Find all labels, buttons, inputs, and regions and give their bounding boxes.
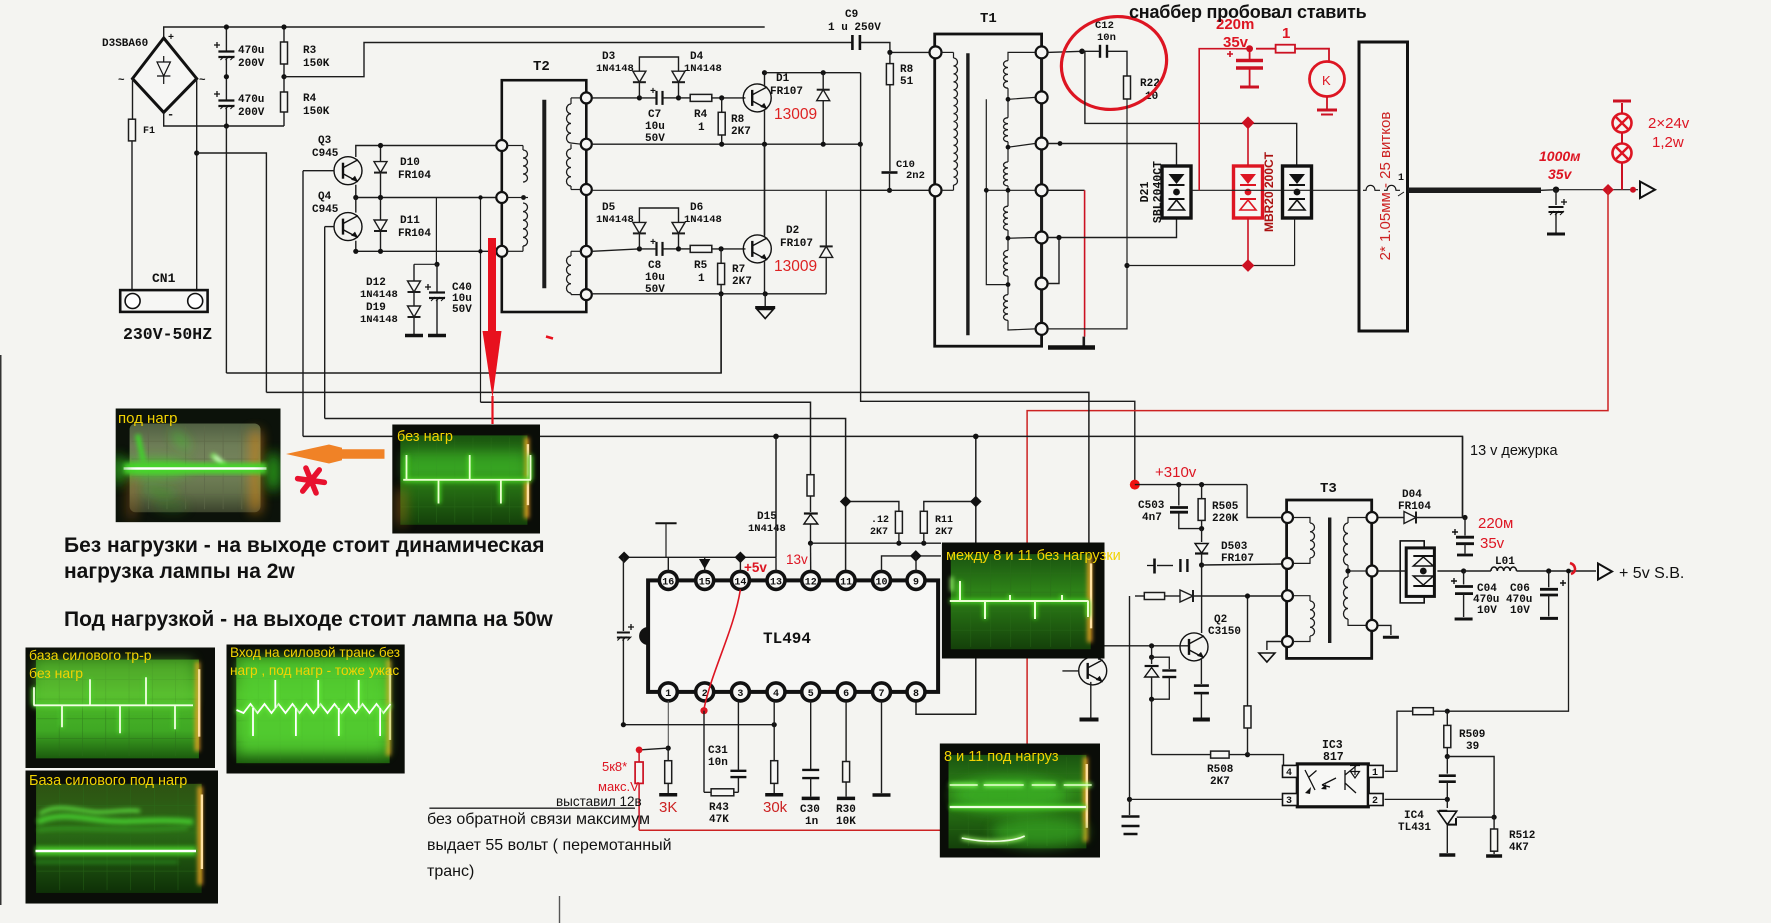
wire T1s4 rail out — [1047, 189, 1085, 191]
wire emitter rail to bus1 riser — [720, 294, 722, 373]
wire junction rail — [811, 542, 942, 544]
wire Q2 emitter — [1200, 658, 1202, 684]
transformer T2 body — [502, 80, 587, 312]
svg-text:R7: R7 — [732, 264, 745, 276]
wire TrA collector to Q2 base — [1099, 646, 1189, 660]
svg-text:220K: 220K — [1212, 513, 1239, 525]
wire R508 rail — [1152, 754, 1211, 756]
svg-text:без нагр: без нагр — [397, 429, 453, 445]
red snubber ellipse — [1051, 6, 1176, 121]
svg-text:1N4148: 1N4148 — [684, 214, 722, 226]
svg-text:транс): транс) — [427, 863, 474, 880]
T1 tap node — [1006, 282, 1011, 287]
node R509 bottom — [1445, 754, 1450, 759]
T1 right terminal 7 — [1036, 323, 1048, 335]
svg-text:D4: D4 — [690, 51, 704, 63]
red node +310v — [1130, 480, 1140, 490]
node C06 — [1546, 568, 1551, 573]
svg-text:10n: 10n — [708, 757, 728, 769]
svg-text:FR107: FR107 — [780, 238, 813, 250]
svg-text:50V: 50V — [452, 304, 472, 316]
svg-text:D19: D19 — [366, 302, 386, 314]
svg-text:1N4148: 1N4148 — [360, 314, 398, 326]
transistor D2 FR107 13009 — [743, 235, 771, 263]
T1 secondary wiring — [1008, 52, 1035, 60]
resistor R3 150K — [283, 27, 285, 42]
svg-text:10u: 10u — [645, 121, 665, 133]
wire TrA emitter ground — [1090, 682, 1092, 718]
wire D1 collector — [764, 73, 766, 86]
svg-text:Q2: Q2 — [1214, 614, 1227, 626]
node bridge-right tap — [194, 150, 199, 155]
svg-text:C12: C12 — [1095, 20, 1114, 32]
svg-text:макс.V: макс.V — [598, 779, 639, 794]
T2 left terminal 2 — [496, 192, 507, 203]
oscilloscope photo 5 baza silovogo pod nagr — [26, 771, 219, 904]
svg-text:FR104: FR104 — [398, 228, 431, 240]
node R505 bottom — [1199, 526, 1204, 531]
pin 6 TL494 — [837, 683, 855, 701]
node pin3 rail — [1127, 797, 1132, 802]
red node diamond out — [1602, 184, 1614, 196]
T3 left terminal 3 — [1282, 590, 1293, 601]
node low rail R22 — [1124, 263, 1129, 268]
svg-text:13v: 13v — [786, 552, 808, 567]
wire feed riser — [1129, 596, 1131, 799]
resistor R22 10 — [1124, 76, 1131, 99]
node C12 tap — [1079, 49, 1085, 55]
svg-text:K: K — [1322, 73, 1331, 88]
wire Q2 collector — [1201, 565, 1203, 633]
red node small — [1630, 187, 1636, 193]
capacitor C31 10n — [737, 777, 739, 792]
node resmid — [281, 74, 286, 79]
node R5-R7 — [719, 246, 724, 251]
svg-text:база силового тр-р: база силового тр-р — [29, 647, 152, 663]
wire tap rail2-to-C40 — [435, 198, 437, 265]
resistor R5 1 — [679, 248, 691, 250]
svg-text:C7: C7 — [648, 109, 661, 121]
T1 secondary coil 3 — [1004, 162, 1009, 186]
ground under D19 — [405, 334, 423, 338]
diode D6 1N4148 — [678, 234, 680, 249]
node C40 top — [434, 262, 439, 267]
capacitor C06 470u 10V — [1548, 571, 1550, 587]
node R8 bottom — [719, 142, 724, 147]
svg-text:нагрузка лампы на 2w: нагрузка лампы на 2w — [64, 560, 295, 583]
T3 core — [1328, 518, 1331, 644]
wire D503 to T3 terminal2 — [1202, 564, 1282, 565]
node r12b — [921, 541, 926, 546]
T2 core bar — [542, 100, 546, 289]
red capacitor 220m — [1249, 49, 1251, 59]
pin 11 TL494 — [837, 571, 855, 589]
svg-text:1N4148: 1N4148 — [360, 289, 398, 301]
T1 secondary coil 1 — [1003, 61, 1008, 89]
wire Q4 collector — [355, 198, 357, 213]
wire tap to bus2 riser — [197, 153, 267, 392]
svg-text:D21: D21 — [1139, 182, 1152, 203]
svg-text:+5v: +5v — [744, 560, 767, 575]
resistor R7 2K7 — [720, 249, 722, 263]
node C8-R5 — [676, 246, 681, 251]
svg-text:IC4: IC4 — [1404, 810, 1424, 822]
bottom tick artifact — [559, 896, 561, 923]
transistor Q4 C945 — [334, 213, 362, 241]
oscilloscope photo 2 bez nagr — [392, 425, 540, 534]
svg-text:50V: 50V — [645, 133, 665, 145]
wire R508 to node — [1229, 754, 1247, 756]
T1 right terminal 3 — [1036, 138, 1048, 150]
node R7 bottom — [719, 291, 724, 296]
node T3 center tap — [1345, 568, 1350, 573]
diode D04 FR104 — [1378, 517, 1404, 519]
wire TL431 cathode node — [1492, 815, 1497, 820]
wire D5-D6 top link — [639, 208, 678, 222]
wire pack out rail — [1437, 570, 1463, 572]
IC TL494 body — [648, 580, 938, 692]
T3 right terminal 1 — [1367, 512, 1378, 523]
lamp wiring — [1621, 133, 1623, 144]
oscilloscope photo 3 baza silovogo — [26, 648, 216, 769]
resistor R8 2K7 — [721, 98, 723, 112]
svg-text:без обратной связи максимум: без обратной связи максимум — [427, 811, 650, 828]
wire pin1 lead — [667, 701, 669, 748]
T3 right terminal 3 — [1367, 620, 1378, 631]
svg-text:C31: C31 — [708, 745, 728, 757]
node Q3coll-D10 — [378, 143, 383, 148]
svg-text:8: 8 — [913, 689, 919, 700]
svg-text:2K7: 2K7 — [731, 126, 751, 138]
svg-text:3: 3 — [737, 689, 743, 700]
svg-text:14: 14 — [734, 578, 746, 589]
rectifier spare block — [1283, 166, 1312, 218]
pin 2 TL494 — [696, 683, 714, 701]
T1 tap node — [1006, 236, 1011, 241]
meter K — [1310, 62, 1345, 97]
svg-text:D3SBA60: D3SBA60 — [102, 38, 148, 50]
T1 tap node — [1006, 97, 1011, 102]
capacitor C1 470u 200V — [225, 27, 227, 52]
svg-text:D10: D10 — [400, 157, 420, 169]
svg-text:L01: L01 — [1495, 556, 1515, 568]
wire T1 primary bottom rail — [860, 189, 934, 191]
output choke box — [1359, 42, 1408, 331]
node ref-left — [618, 552, 630, 564]
inductor L01 — [1464, 570, 1491, 572]
svg-text:D15: D15 — [757, 511, 777, 523]
svg-text:3: 3 — [1286, 796, 1292, 807]
wire s5-s6 strap — [1047, 238, 1059, 284]
svg-text:+ 5v S.B.: + 5v S.B. — [1619, 565, 1684, 582]
svg-text:230V-50HZ: 230V-50HZ — [123, 325, 212, 344]
svg-text:1: 1 — [1398, 173, 1404, 184]
svg-text:+: + — [650, 87, 656, 98]
pin 10 TL494 — [873, 571, 891, 589]
diode D11 FR104 — [380, 198, 382, 221]
wire pin12 stub — [810, 543, 812, 571]
node D3-C7 — [637, 95, 642, 100]
node zener top link — [1149, 643, 1154, 648]
node R4-R8 — [719, 95, 724, 100]
svg-text:без нагр: без нагр — [29, 665, 83, 681]
bus1 wire — [226, 294, 721, 373]
wire T1s5 to D21 bottom — [1047, 218, 1177, 237]
node D5-C8 — [637, 246, 642, 251]
node capmid — [224, 74, 229, 79]
wire diode feed row — [1135, 595, 1144, 597]
svg-text:FR104: FR104 — [1398, 501, 1431, 513]
svg-text:1: 1 — [698, 122, 705, 134]
lamp 2x24v lower — [1613, 144, 1632, 163]
svg-text:10K: 10K — [836, 816, 856, 828]
wire zener to R508 rail — [1151, 699, 1153, 754]
T3 left coil a — [1310, 523, 1315, 558]
node C04 — [1461, 568, 1466, 573]
svg-text:1N4148: 1N4148 — [684, 63, 722, 75]
svg-text:Q4: Q4 — [318, 191, 332, 203]
node bottomrail-cap — [224, 123, 229, 128]
svg-text:8 и 11 под нагруз: 8 и 11 под нагруз — [944, 749, 1059, 765]
T1 right terminal 1 — [1036, 46, 1048, 58]
node pin1 network — [666, 746, 671, 751]
capacitor C2 470u 200V — [225, 77, 227, 101]
svg-text:2×24v: 2×24v — [1648, 115, 1690, 132]
svg-text:C8: C8 — [648, 260, 662, 272]
red wire to K meter — [1295, 49, 1329, 61]
node C503 top — [1176, 482, 1181, 487]
lamp 2x24v upper — [1613, 114, 1632, 133]
svg-text:MBR20 200CT: MBR20 200CT — [1262, 151, 1276, 232]
svg-text:9: 9 — [913, 578, 919, 589]
wire node to pin4 IC3 — [1248, 755, 1284, 766]
svg-text:7: 7 — [878, 689, 884, 700]
wire C12tap down-right — [1082, 51, 1297, 165]
svg-text:D5: D5 — [602, 202, 616, 214]
T1 right terminal 4 — [1036, 184, 1048, 196]
wire Q3 emitter rail — [356, 185, 502, 198]
resistor R505 220K — [1201, 485, 1203, 499]
wire Q3 base riser to bus5 — [302, 171, 304, 437]
wire pin4 down — [773, 701, 775, 761]
ground under C40 — [428, 334, 446, 338]
svg-text:C945: C945 — [312, 148, 339, 160]
fuse F1 — [129, 119, 136, 141]
capacitor C9 1u 250V — [851, 35, 854, 50]
ground T1 centertap — [1083, 337, 1086, 346]
pin 9 TL494 — [907, 571, 925, 589]
bus2 wire — [266, 392, 1089, 657]
bypass capacitor at pin16 rail — [622, 557, 624, 631]
capacitor 220m standby — [1464, 518, 1466, 536]
T3 right coil b — [1344, 577, 1348, 619]
svg-text:2K7: 2K7 — [732, 276, 752, 288]
node r12a — [896, 541, 901, 546]
capacitor Q2 emitter — [1194, 684, 1209, 687]
svg-text:10u: 10u — [645, 272, 665, 284]
node C9-R8 — [887, 50, 892, 55]
T2 secondary coil 2 — [567, 149, 572, 186]
transformer T1 body — [935, 34, 1042, 346]
capacitor C8 10u 50V — [655, 242, 657, 256]
node flyback1 bottom — [821, 142, 826, 147]
pin 8 TL494 — [907, 683, 925, 701]
diode D5 1N4148 — [638, 234, 640, 249]
svg-text:13: 13 — [770, 578, 782, 589]
left edge artifact — [0, 355, 2, 905]
svg-text:T2: T2 — [533, 59, 550, 75]
node R505 top — [1199, 482, 1204, 487]
resistor R30 10K — [843, 762, 850, 783]
pin 13 TL494 — [767, 571, 785, 589]
svg-text:выдает 55 вольт ( перемотанный: выдает 55 вольт ( перемотанный — [427, 837, 672, 854]
T2 tap dot — [521, 195, 526, 200]
T3 left coil b — [1310, 601, 1315, 636]
svg-text:5к8*: 5к8* — [602, 759, 627, 774]
svg-text:51: 51 — [900, 76, 914, 88]
svg-text:База силового под нагр: База силового под нагр — [29, 773, 187, 789]
wire T1s7 jog to low rail — [1047, 266, 1127, 329]
svg-text:R3: R3 — [303, 45, 317, 57]
svg-text:D11: D11 — [400, 215, 420, 227]
bus5 wire 13v — [303, 436, 1463, 517]
+5v SB arrow — [1598, 564, 1612, 580]
svg-text:4n7: 4n7 — [1142, 512, 1162, 524]
bus3 wire — [481, 402, 811, 474]
red probe arrow — [488, 238, 496, 332]
svg-text:R508: R508 — [1207, 764, 1234, 776]
wire +310 to T3 — [1247, 485, 1281, 518]
capacitor comp — [1446, 757, 1448, 774]
node D1 emit — [762, 142, 767, 147]
T2 right terminal 4 — [581, 246, 592, 257]
ground TL431 — [1439, 853, 1455, 856]
svg-text:+: + — [168, 33, 174, 44]
pin15 stub — [704, 557, 706, 571]
svg-text:2n2: 2n2 — [906, 170, 925, 182]
svg-text:F1: F1 — [143, 126, 155, 137]
svg-text:1 u 250V: 1 u 250V — [828, 22, 881, 34]
wire pin2 down — [703, 711, 705, 793]
+5v ref rail — [624, 556, 776, 558]
node pin2 rail — [1445, 797, 1450, 802]
wire bridge bottom rail — [164, 112, 284, 126]
svg-text:1N4148: 1N4148 — [748, 523, 786, 535]
T3 right coil a — [1344, 523, 1348, 565]
optocoupler IC3 817 — [1297, 764, 1368, 807]
transistor Q2 C3150 — [1180, 633, 1208, 661]
wire L01 out — [1517, 570, 1597, 572]
wire D2 emitter — [764, 261, 766, 294]
transformer T3 body — [1287, 500, 1372, 658]
T1 right terminal 2 — [1036, 91, 1048, 103]
T2 secondary coil 3 — [567, 256, 572, 293]
svg-text:150K: 150K — [303, 58, 330, 70]
T1 secondary coil 2 — [1004, 118, 1009, 142]
wire pin5 down — [810, 701, 812, 770]
svg-text:R4: R4 — [694, 109, 708, 121]
red tap wire 220m — [1199, 49, 1249, 191]
capacitor C10 2n2 — [882, 171, 898, 174]
oscilloscope photo 6 mezhdu 8 i 11 — [942, 543, 1105, 659]
red node 5k8 — [636, 747, 643, 754]
resistor .12 2K7 — [895, 511, 902, 533]
svg-text:817: 817 — [1323, 751, 1344, 764]
capacitor C40 10u 50V — [436, 264, 438, 292]
capacitor C503 4n7 — [1178, 485, 1180, 506]
pin14 stub — [739, 557, 741, 571]
capacitor hf horizontal — [1179, 559, 1181, 572]
wire D3-D4 top link — [639, 57, 678, 71]
wire pin7 ground — [881, 701, 883, 793]
svg-text:10n: 10n — [1097, 32, 1116, 44]
resistor R508 2K7 — [1211, 751, 1230, 758]
bus4 wire — [325, 419, 846, 572]
choke coil humps — [1363, 185, 1380, 190]
node D11 bottom — [378, 249, 383, 254]
rectifier D21 SBL2040CT — [1162, 166, 1191, 218]
svg-text:FR107: FR107 — [770, 86, 803, 98]
wire C9 to T1 — [860, 43, 934, 53]
red asterisk — [298, 468, 325, 493]
svg-text:D2: D2 — [786, 225, 799, 237]
svg-text:T3: T3 — [1320, 481, 1337, 497]
ground Q2 emitter — [1193, 718, 1210, 722]
svg-text:2K7: 2K7 — [1210, 776, 1230, 788]
red node diamond bottom — [1242, 259, 1255, 272]
svg-text:1: 1 — [665, 689, 671, 700]
wire caps midline down to bus1 — [225, 126, 227, 373]
wire D1 emitter — [764, 110, 766, 144]
svg-text:2: 2 — [1372, 796, 1378, 807]
node zener bottom — [1149, 697, 1154, 702]
wire T3 sec to pack — [1378, 570, 1406, 572]
wire Q2 base divider — [1187, 645, 1189, 647]
node D1 coll — [762, 70, 767, 75]
T3 left terminal 2 — [1282, 558, 1293, 569]
svg-text:1: 1 — [1372, 768, 1378, 779]
capacitor C30 1n — [802, 769, 819, 771]
svg-text:13 v дежурка: 13 v дежурка — [1470, 443, 1558, 459]
wire +5v feedback drop — [1447, 571, 1568, 711]
emitter rail ch1 — [592, 143, 860, 145]
svg-text:Q3: Q3 — [318, 135, 332, 147]
IC4 TL431 — [1446, 799, 1448, 808]
red node diamond top — [1242, 116, 1255, 129]
svg-text:Под нагрузкой - на выходе стои: Под нагрузкой - на выходе стоит лампа на… — [64, 608, 553, 631]
svg-text:SBL2040CT: SBL2040CT — [1152, 161, 1165, 223]
svg-text:470u: 470u — [238, 45, 264, 57]
node divider top — [1245, 593, 1250, 598]
svg-text:10V: 10V — [1477, 605, 1497, 617]
svg-text:3K: 3K — [659, 799, 677, 816]
wire bridge right down — [196, 79, 198, 292]
svg-text:200V: 200V — [238, 58, 265, 70]
svg-text:2K7: 2K7 — [870, 527, 888, 538]
wire D1e to D2 collector — [764, 144, 766, 235]
ground D2 emitter — [764, 294, 766, 306]
wire pin13 riser — [775, 436, 777, 557]
svg-text:D3: D3 — [602, 51, 616, 63]
bus5 to pin8 riser — [975, 436, 977, 543]
wire Q4 base — [325, 226, 334, 228]
wire T1s1 to C12 — [1047, 51, 1082, 52]
node output cap — [1553, 187, 1559, 193]
node flyback1 top — [821, 70, 826, 75]
node ref-14 — [735, 552, 747, 564]
wire to lamps node — [1556, 189, 1638, 191]
node Q3e-Q4c — [353, 195, 358, 200]
